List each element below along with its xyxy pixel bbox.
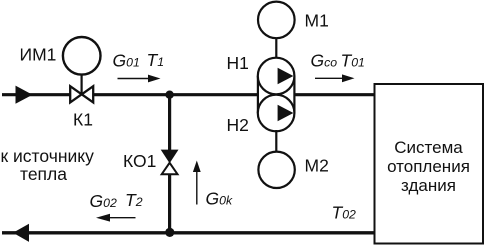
motor M2 <box>258 152 294 188</box>
svg-text:Н1: Н1 <box>227 53 249 73</box>
svg-text:Система: Система <box>394 138 463 157</box>
wire: valve K1 to pump group <box>93 93 259 96</box>
actuator ИМ1 <box>63 37 101 75</box>
svg-text:здания: здания <box>401 176 456 195</box>
svg-text:КО1: КО1 <box>123 151 156 171</box>
pump H1 <box>258 58 295 95</box>
svg-text:М2: М2 <box>305 156 329 176</box>
wire: actuator stem to valve K1 <box>80 74 82 94</box>
heating system box <box>375 84 484 244</box>
check valve КО1 <box>161 150 179 175</box>
valve K1 (two-triangle gate valve) <box>70 86 93 102</box>
svg-text:отопления: отопления <box>387 157 470 176</box>
flow arrow Gco/T01 <box>315 74 355 82</box>
flow arrowhead on return pipe <box>13 224 29 242</box>
node: return pipe / bypass junction <box>165 228 174 237</box>
pump group capsule tangent lines <box>257 76 259 113</box>
wire: bypass riser upper segment <box>168 95 171 151</box>
motor M1 <box>258 2 295 39</box>
flow arrow G0k <box>193 161 201 205</box>
svg-text:М1: М1 <box>305 11 329 31</box>
wire: pump group to heating system box <box>294 93 375 96</box>
flow arrow G02/T2 <box>96 214 136 222</box>
node: supply pipe / bypass junction <box>165 91 173 99</box>
svg-text:к источнику: к источнику <box>1 146 95 166</box>
svg-text:ИМ1: ИМ1 <box>20 45 57 65</box>
wire: return pipe <box>2 231 375 234</box>
wire: supply pipe left segment <box>2 93 71 96</box>
flow arrowhead on supply pipe <box>16 86 33 104</box>
svg-text:Н2: Н2 <box>227 115 249 135</box>
wire: motor M1 stem <box>275 37 277 59</box>
pump H2 <box>258 95 295 132</box>
svg-text:тепла: тепла <box>20 164 67 184</box>
wire: bypass riser lower segment <box>168 174 171 233</box>
svg-text:К1: К1 <box>73 110 93 130</box>
flow arrow G01/T1 <box>118 75 161 83</box>
wire: pump H2 to motor M2 stem <box>275 130 277 152</box>
